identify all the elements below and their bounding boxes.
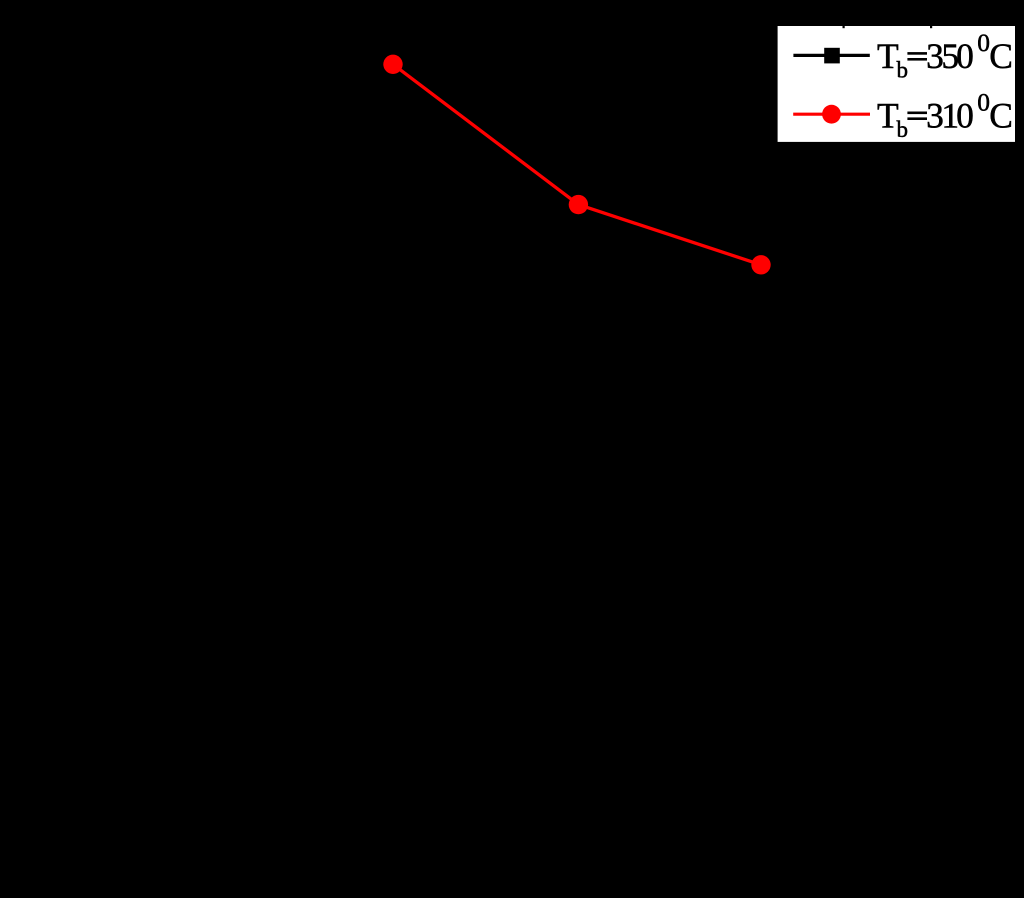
legend frame border xyxy=(774,23,1018,146)
legend row 1 square marker xyxy=(824,48,840,64)
legend row 1 line sample (black) xyxy=(793,54,869,57)
node C: red marker point 3 xyxy=(751,255,770,274)
legend row 1 equals sign bars xyxy=(907,52,927,55)
svg-text:Tb3100C: Tb3100C xyxy=(877,87,1013,142)
node B: red marker point 2 xyxy=(569,195,588,214)
svg-text:Tb3500C: Tb3500C xyxy=(877,28,1013,83)
wire: red data series T_b=310 polyline xyxy=(393,64,761,264)
legend row 2 circle marker xyxy=(822,105,841,124)
legend row 2 equals sign bars xyxy=(907,112,927,115)
axis tick 1 over legend xyxy=(843,24,845,28)
node A: red marker point 1 xyxy=(383,55,402,74)
legend row 2 line sample (red) xyxy=(793,113,870,116)
axis tick 2 over legend xyxy=(930,24,932,28)
legend white background xyxy=(778,26,1015,142)
